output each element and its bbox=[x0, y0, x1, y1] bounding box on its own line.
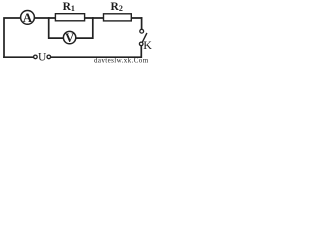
svg-text:A: A bbox=[23, 10, 33, 25]
svg-text:U: U bbox=[38, 51, 47, 63]
switch K top terminal bbox=[140, 29, 144, 33]
resistor R1 bbox=[55, 14, 84, 21]
switch K blade bbox=[142, 33, 147, 42]
svg-text:dayteslw.xk.Com: dayteslw.xk.Com bbox=[94, 57, 149, 63]
svg-text:K: K bbox=[143, 38, 152, 52]
switch K bottom terminal bbox=[139, 42, 143, 46]
svg-text:V: V bbox=[65, 31, 74, 45]
wire voltmeter branch right (voltmeter right, up to junction) bbox=[76, 18, 93, 38]
ammeter A1 bbox=[21, 10, 35, 25]
svg-text:R1: R1 bbox=[63, 1, 75, 13]
wire voltmeter branch left (junction down and right to voltmeter) bbox=[49, 18, 64, 38]
wire top (left corner to right corner) bbox=[4, 18, 142, 57]
terminal left of U bbox=[34, 55, 38, 59]
wire right upper (corner down to switch top terminal) bbox=[141, 18, 143, 29]
wire right lower (switch bottom terminal to bottom corner) bbox=[51, 46, 141, 57]
wire bottom left (left corner to left U terminal) bbox=[4, 56, 33, 58]
voltmeter V1 bbox=[63, 31, 75, 45]
resistor R2 bbox=[104, 14, 132, 21]
terminal right of U bbox=[47, 55, 51, 59]
svg-text:R2: R2 bbox=[111, 1, 123, 13]
